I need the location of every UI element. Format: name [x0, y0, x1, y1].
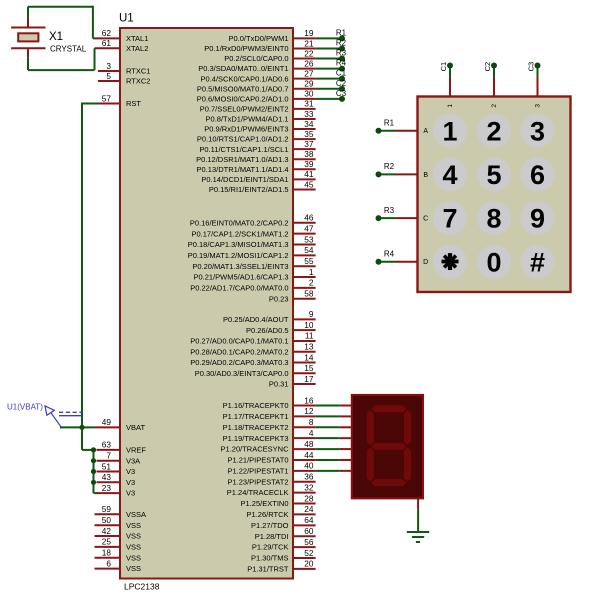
svg-text:43: 43 — [102, 472, 112, 482]
pin 54 P0.19/MAT1.2/MOSI1/CAP1.2 — [188, 245, 316, 260]
pin 60 P1.28/TDI — [255, 526, 316, 541]
svg-text:P0.28/AD0.1/CAP0.2/MAT0.2: P0.28/AD0.1/CAP0.2/MAT0.2 — [190, 347, 288, 356]
svg-text:C1: C1 — [439, 62, 448, 72]
pin 8 P1.18/TRACEPKT2 — [223, 417, 316, 432]
svg-text:23: 23 — [102, 483, 112, 493]
wire pin to node R4 — [316, 68, 342, 70]
svg-text:P1.17/TRACEPKT1: P1.17/TRACEPKT1 — [223, 412, 289, 421]
svg-text:P0.16/EINT0/MAT0.2/CAP0.2: P0.16/EINT0/MAT0.2/CAP0.2 — [190, 218, 289, 227]
wire probe stub to VBAT (pin 49) — [60, 426, 95, 428]
svg-text:26: 26 — [304, 58, 314, 68]
svg-text:28: 28 — [304, 493, 314, 503]
svg-text:LPC2138: LPC2138 — [124, 582, 160, 592]
svg-text:14: 14 — [304, 352, 314, 362]
svg-text:2: 2 — [486, 116, 501, 146]
node R2 (chip side terminal) — [336, 38, 347, 51]
svg-text:50: 50 — [102, 515, 112, 525]
svg-text:22: 22 — [304, 48, 314, 58]
keypad button # — [521, 245, 555, 279]
svg-text:55: 55 — [304, 256, 314, 266]
pin 32 P1.24/TRACECLK — [227, 482, 316, 497]
svg-text:39: 39 — [304, 159, 314, 169]
svg-text:37: 37 — [304, 139, 314, 149]
keypad button 1 — [433, 114, 467, 148]
svg-text:P1.25/EXTIN0: P1.25/EXTIN0 — [241, 499, 289, 508]
pin 64 P1.27/TDO — [251, 515, 316, 530]
wire chip to display segment e — [316, 448, 352, 450]
svg-text:19: 19 — [304, 28, 314, 38]
keypad button 9 — [521, 201, 555, 235]
pin 41 P0.14/DCD1/EINT1/SDA1 — [201, 169, 315, 184]
svg-text:VSS: VSS — [126, 532, 141, 541]
svg-text:P1.19/TRACEPKT3: P1.19/TRACEPKT3 — [223, 434, 289, 443]
svg-text:CRYSTAL: CRYSTAL — [50, 45, 87, 54]
pin 11 P0.27/AD0.0/CAP0.1/MAT0.1 — [190, 331, 315, 346]
pin 52 P1.30/TMS — [251, 548, 316, 563]
svg-text:#: # — [530, 247, 545, 277]
svg-text:R1: R1 — [384, 118, 395, 127]
7-segment digit segment e — [367, 447, 374, 481]
7-segment digit segment d — [371, 479, 406, 486]
svg-text:52: 52 — [304, 548, 314, 558]
pin 22 P0.2/SCL0/CAP0.0 — [224, 48, 315, 63]
svg-text:VBAT: VBAT — [126, 423, 145, 432]
pin 49 VBAT — [95, 417, 145, 432]
pin 6 VSS — [95, 558, 142, 573]
node R3 (keypad side terminal) — [376, 206, 395, 221]
svg-text:6: 6 — [530, 160, 545, 190]
7-segment display body — [352, 395, 423, 499]
svg-text:7: 7 — [442, 204, 457, 234]
svg-text:U1(VBAT): U1(VBAT) — [7, 403, 43, 412]
svg-text:62: 62 — [102, 28, 112, 38]
svg-text:54: 54 — [304, 245, 314, 255]
svg-text:P1.16/TRACEPKT0: P1.16/TRACEPKT0 — [223, 401, 289, 410]
pin 7 V3A — [97, 451, 141, 466]
pin 57 RST — [99, 93, 141, 108]
svg-text:P0.7/SSEL0/PWM2/EINT2: P0.7/SSEL0/PWM2/EINT2 — [200, 104, 289, 113]
pin 47 P0.17/CAP1.2/SCK1/MAT1.2 — [192, 223, 316, 238]
svg-text:V3: V3 — [126, 478, 135, 487]
wire pin to node R3 — [316, 58, 342, 60]
keypad button 0 — [477, 245, 511, 279]
svg-text:P0.4/SCK0/CAP0.1/AD0.6: P0.4/SCK0/CAP0.1/AD0.6 — [201, 74, 289, 83]
pin 30 P0.6/MOSI0/CAP0.2/AD1.0 — [197, 89, 316, 104]
svg-text:C3: C3 — [527, 62, 536, 72]
svg-text:P0.2/SCL0/CAP0.0: P0.2/SCL0/CAP0.0 — [224, 54, 288, 63]
svg-text:P0.29/AD0.2/CAP0.3/MAT0.3: P0.29/AD0.2/CAP0.3/MAT0.3 — [190, 358, 288, 367]
pin 16 P1.16/TRACEPKT0 — [223, 395, 316, 410]
wire chip to display segment c — [316, 426, 352, 428]
wire node C1 to keypad column 1 — [449, 66, 451, 97]
pin 28 P1.25/EXTIN0 — [241, 493, 316, 508]
svg-text:P1.20/TRACESYNC: P1.20/TRACESYNC — [221, 445, 290, 454]
pin 48 P1.20/TRACESYNC — [221, 439, 316, 454]
svg-text:P1.24/TRACECLK: P1.24/TRACECLK — [227, 488, 289, 497]
probe U1(VBAT) — [7, 403, 82, 427]
svg-text:P0.21/PWM5/AD1.6/CAP1.3: P0.21/PWM5/AD1.6/CAP1.3 — [193, 273, 288, 282]
pin 50 VSS — [95, 515, 142, 530]
svg-text:P0.18/CAP1.3/MISO1/MAT1.3: P0.18/CAP1.3/MISO1/MAT1.3 — [188, 240, 289, 249]
keypad button 4 — [433, 157, 467, 191]
svg-text:R2: R2 — [384, 162, 395, 171]
display common pin — [417, 498, 419, 510]
7-segment digit segment b — [404, 410, 411, 446]
svg-text:20: 20 — [304, 559, 314, 569]
svg-text:38: 38 — [304, 149, 314, 159]
svg-text:51: 51 — [102, 461, 112, 471]
wire node R4 to keypad row D — [379, 261, 418, 263]
wire node R2 to keypad row B — [379, 173, 418, 175]
wire pin to node R2 — [316, 47, 342, 49]
svg-text:8: 8 — [309, 417, 314, 427]
svg-text:VSS: VSS — [126, 543, 141, 552]
wire chip to display segment d — [316, 437, 352, 439]
wire chip to display segment a — [316, 405, 352, 407]
svg-text:3: 3 — [530, 116, 545, 146]
wire node C2 to keypad column 2 — [493, 66, 495, 97]
pin 27 P0.4/SCK0/CAP0.1/AD0.6 — [201, 68, 316, 83]
node C3 (chip side terminal) — [336, 89, 347, 102]
pin 4 P1.19/TRACEPKT3 — [223, 428, 316, 443]
svg-text:44: 44 — [304, 450, 314, 460]
svg-text:31: 31 — [304, 99, 314, 109]
node C2 (chip side terminal) — [336, 79, 347, 92]
svg-text:3: 3 — [535, 104, 542, 108]
pin 17 P0.31 — [269, 374, 316, 389]
node C2 (keypad side terminal) — [483, 62, 497, 72]
svg-text:9: 9 — [530, 204, 545, 234]
junction at VBAT — [79, 425, 84, 430]
7-segment digit segment f — [367, 410, 374, 446]
svg-text:P1.28/TDI: P1.28/TDI — [255, 532, 289, 541]
wire chip to display segment f — [316, 459, 352, 461]
svg-text:59: 59 — [102, 504, 112, 514]
svg-text:R1: R1 — [336, 28, 347, 37]
svg-text:P1.26/RTCK: P1.26/RTCK — [247, 510, 289, 519]
svg-text:33: 33 — [304, 109, 314, 119]
svg-text:45: 45 — [304, 179, 314, 189]
svg-text:P0.26/AD0.5: P0.26/AD0.5 — [246, 326, 289, 335]
wire pin to node C1 — [316, 78, 342, 80]
svg-text:49: 49 — [102, 417, 112, 427]
svg-text:C1: C1 — [336, 69, 347, 78]
svg-text:V3A: V3A — [126, 456, 140, 465]
wire node R1 to keypad row A — [379, 130, 418, 132]
svg-text:V3: V3 — [126, 467, 135, 476]
svg-text:P0.30/AD0.3/EINT3/CAP0.0: P0.30/AD0.3/EINT3/CAP0.0 — [195, 369, 289, 378]
svg-text:21: 21 — [304, 38, 314, 48]
svg-text:61: 61 — [102, 38, 112, 48]
svg-text:36: 36 — [304, 472, 314, 482]
svg-text:RTXC2: RTXC2 — [126, 77, 150, 86]
svg-text:C2: C2 — [483, 62, 492, 72]
svg-text:P1.21/PIPESTAT0: P1.21/PIPESTAT0 — [228, 456, 289, 465]
svg-text:P0.8/TxD1/PWM4/AD1.1: P0.8/TxD1/PWM4/AD1.1 — [206, 115, 289, 124]
svg-text:V3: V3 — [126, 489, 135, 498]
svg-text:VREF: VREF — [126, 446, 146, 455]
node R2 (keypad side terminal) — [376, 162, 395, 177]
pin 9 P0.25/AD0.4/AOUT — [223, 309, 316, 324]
pin 5 RTXC2 — [98, 71, 150, 86]
svg-text:P1.27/TDO: P1.27/TDO — [251, 521, 289, 530]
pin 34 P0.9/RxD1/PWM6/EINT3 — [204, 119, 315, 134]
svg-text:3: 3 — [106, 61, 111, 71]
svg-text:P0.23: P0.23 — [269, 294, 289, 303]
pin 43 V3 — [97, 472, 136, 487]
keypad button 7 — [433, 201, 467, 235]
microcontroller U1 LPC2138 body — [120, 28, 293, 579]
junction at V3A — [91, 458, 96, 463]
svg-text:5: 5 — [106, 71, 111, 81]
pin 53 P0.18/CAP1.3/MISO1/MAT1.3 — [188, 234, 316, 249]
pin 13 P0.28/AD0.1/CAP0.2/MAT0.2 — [190, 342, 315, 357]
wire pin to node C2 — [316, 88, 342, 90]
svg-text:VSSA: VSSA — [126, 510, 146, 519]
pin 42 VSS — [95, 526, 142, 541]
keypad button 8 — [477, 201, 511, 235]
wire pin to node R1 — [316, 37, 342, 39]
keypad button 5 — [477, 157, 511, 191]
svg-text:C2: C2 — [336, 79, 347, 88]
svg-text:27: 27 — [304, 68, 314, 78]
crystal X1 — [11, 17, 45, 57]
svg-text:P1.23/PIPESTAT2: P1.23/PIPESTAT2 — [228, 477, 289, 486]
pin 12 P1.17/TRACEPKT1 — [223, 406, 316, 421]
pin 20 P1.31/TRST — [247, 559, 315, 574]
svg-text:24: 24 — [304, 504, 314, 514]
junction at VREF — [91, 447, 96, 452]
svg-text:P0.0/TxD0/PWM1: P0.0/TxD0/PWM1 — [228, 34, 288, 43]
svg-text:D: D — [423, 259, 428, 266]
svg-text:P0.19/MAT1.2/MOSI1/CAP1.2: P0.19/MAT1.2/MOSI1/CAP1.2 — [188, 251, 289, 260]
pin 62 XTAL1 — [95, 28, 149, 43]
svg-text:1: 1 — [442, 116, 457, 146]
svg-text:P0.25/AD0.4/AOUT: P0.25/AD0.4/AOUT — [223, 315, 289, 324]
svg-text:P0.22/AD1.7/CAP0.0/MAT0.0: P0.22/AD1.7/CAP0.0/MAT0.0 — [190, 284, 288, 293]
svg-text:40: 40 — [304, 461, 314, 471]
svg-text:48: 48 — [304, 439, 314, 449]
pin 38 P0.12/DSR1/MAT1.0/AD1.3 — [196, 149, 316, 164]
node R1 (keypad side terminal) — [376, 118, 395, 133]
svg-text:RST: RST — [126, 99, 141, 108]
svg-text:P0.6/MOSI0/CAP0.2/AD1.0: P0.6/MOSI0/CAP0.2/AD1.0 — [197, 94, 289, 103]
wire crystal top to XTAL1 (pin 62) — [28, 6, 95, 39]
node C1 (keypad side terminal) — [439, 62, 453, 72]
svg-text:P0.15/RI1/EINT2/AD1.5: P0.15/RI1/EINT2/AD1.5 — [209, 185, 289, 194]
pin 46 P0.16/EINT0/MAT0.2/CAP0.2 — [190, 213, 316, 228]
svg-text:P1.18/TRACEPKT2: P1.18/TRACEPKT2 — [223, 423, 289, 432]
wire node R3 to keypad row C — [379, 217, 418, 219]
svg-text:R4: R4 — [384, 250, 395, 259]
node R4 (chip side terminal) — [336, 59, 347, 72]
svg-text:R3: R3 — [384, 206, 395, 215]
svg-text:P0.14/DCD1/EINT1/SDA1: P0.14/DCD1/EINT1/SDA1 — [201, 175, 288, 184]
svg-text:P0.20/MAT1.3/SSEL1/EINT3: P0.20/MAT1.3/SSEL1/EINT3 — [192, 262, 288, 271]
svg-text:XTAL1: XTAL1 — [126, 34, 148, 43]
svg-text:17: 17 — [304, 374, 314, 384]
svg-text:P0.10/RTS1/CAP1.0/AD1.2: P0.10/RTS1/CAP1.0/AD1.2 — [197, 135, 289, 144]
pin 14 P0.29/AD0.2/CAP0.3/MAT0.3 — [190, 352, 315, 367]
ground — [407, 532, 429, 542]
pin 10 P0.26/AD0.5 — [246, 320, 316, 335]
node R3 (chip side terminal) — [336, 49, 347, 62]
svg-text:R3: R3 — [336, 49, 347, 58]
svg-text:2: 2 — [491, 104, 498, 108]
svg-text:32: 32 — [304, 482, 314, 492]
pin 40 P1.22/PIPESTAT1 — [228, 461, 316, 476]
svg-text:0: 0 — [486, 247, 501, 277]
7-segment digit segment c — [404, 447, 411, 481]
node R1 (chip side terminal) — [336, 28, 347, 41]
svg-text:A: A — [423, 128, 428, 135]
svg-text:60: 60 — [304, 526, 314, 536]
svg-text:34: 34 — [304, 119, 314, 129]
svg-text:P0.9/RxD1/PWM6/EINT3: P0.9/RxD1/PWM6/EINT3 — [204, 125, 288, 134]
junction at V3 pin 43 — [91, 480, 96, 485]
svg-text:18: 18 — [102, 548, 112, 558]
svg-text:9: 9 — [309, 309, 314, 319]
pin 21 P0.1/RxD0/PWM3/EINT0 — [204, 38, 315, 53]
svg-text:P1.31/TRST: P1.31/TRST — [247, 564, 289, 573]
svg-text:25: 25 — [102, 537, 112, 547]
pin 33 P0.8/TxD1/PWM4/AD1.1 — [206, 109, 316, 124]
svg-text:P0.11/CTS1/CAP1.1/SCL1: P0.11/CTS1/CAP1.1/SCL1 — [199, 145, 288, 154]
pin 2 P0.22/AD1.7/CAP0.0/MAT0.0 — [190, 278, 315, 293]
pin 31 P0.7/SSEL0/PWM2/EINT2 — [200, 99, 316, 114]
svg-text:R2: R2 — [336, 38, 347, 47]
svg-text:R4: R4 — [336, 59, 347, 68]
svg-text:C3: C3 — [336, 89, 347, 98]
svg-text:16: 16 — [304, 395, 314, 405]
svg-text:5: 5 — [486, 160, 501, 190]
node C3 (keypad side terminal) — [527, 62, 541, 72]
svg-text:1: 1 — [447, 104, 454, 108]
pin 23 V3 — [97, 483, 136, 498]
pin 63 VREF — [97, 440, 147, 455]
svg-text:P0.17/CAP1.2/SCK1/MAT1.2: P0.17/CAP1.2/SCK1/MAT1.2 — [192, 229, 289, 238]
svg-text:P1.30/TMS: P1.30/TMS — [251, 554, 289, 563]
svg-text:VSS: VSS — [126, 553, 141, 562]
pin 44 P1.21/PIPESTAT0 — [228, 450, 316, 465]
wire RST (pin 57) down the left side — [82, 103, 99, 428]
wire VBAT junction down to VREF row — [82, 427, 94, 450]
svg-text:X1: X1 — [49, 31, 63, 43]
svg-text:58: 58 — [304, 289, 314, 299]
pin 26 P0.3/SDA0/MAT0..0/EINT1 — [198, 58, 315, 73]
svg-text:47: 47 — [304, 223, 314, 233]
pin 56 P1.29/TCK — [252, 537, 316, 552]
svg-text:57: 57 — [102, 93, 112, 103]
pin 3 RTXC1 — [98, 61, 150, 76]
svg-text:4: 4 — [309, 428, 314, 438]
svg-text:P0.27/AD0.0/CAP0.1/MAT0.1: P0.27/AD0.0/CAP0.1/MAT0.1 — [190, 337, 288, 346]
pin 35 P0.10/RTS1/CAP1.0/AD1.2 — [197, 129, 316, 144]
svg-text:U1: U1 — [119, 13, 134, 25]
keypad button 6 — [521, 157, 555, 191]
keypad button * — [433, 245, 467, 279]
svg-text:41: 41 — [304, 169, 314, 179]
pin 15 P0.30/AD0.3/EINT3/CAP0.0 — [195, 363, 316, 378]
7-segment digit segment g — [371, 443, 406, 450]
wire chip to display segment g — [316, 470, 352, 472]
svg-text:C: C — [423, 216, 428, 223]
wire node C3 to keypad column 3 — [537, 66, 539, 97]
svg-text:42: 42 — [102, 526, 112, 536]
pin 45 P0.15/RI1/EINT2/AD1.5 — [209, 179, 316, 194]
keypad body — [418, 97, 571, 293]
svg-text:P0.13/DTR1/MAT1.1/AD1.4: P0.13/DTR1/MAT1.1/AD1.4 — [197, 165, 289, 174]
svg-text:XTAL2: XTAL2 — [126, 44, 148, 53]
wire chip to display segment b — [316, 415, 352, 417]
svg-text:VSS: VSS — [126, 564, 141, 573]
pin 58 P0.23 — [269, 289, 316, 304]
svg-text:11: 11 — [305, 331, 314, 341]
pin 51 V3 — [97, 461, 136, 476]
pin 1 P0.21/PWM5/AD1.6/CAP1.3 — [193, 267, 315, 282]
svg-text:P1.22/PIPESTAT1: P1.22/PIPESTAT1 — [228, 466, 289, 475]
svg-text:63: 63 — [102, 440, 112, 450]
svg-text:30: 30 — [304, 89, 314, 99]
svg-text:29: 29 — [304, 79, 314, 89]
svg-text:P0.5/MISO0/MAT0.1/AD0.7: P0.5/MISO0/MAT0.1/AD0.7 — [197, 84, 289, 93]
svg-text:P0.3/SDA0/MAT0..0/EINT1: P0.3/SDA0/MAT0..0/EINT1 — [198, 64, 288, 73]
pin 18 VSS — [95, 548, 142, 563]
pin 25 VSS — [95, 537, 142, 552]
svg-text:4: 4 — [442, 160, 457, 190]
pin 24 P1.26/RTCK — [247, 504, 316, 519]
7-segment digit segment a — [371, 405, 406, 412]
pin 59 VSSA — [95, 504, 147, 519]
wire down supply rail V3 pins — [93, 450, 95, 493]
keypad button 2 — [477, 114, 511, 148]
pin 19 P0.0/TxD0/PWM1 — [228, 28, 315, 43]
svg-text:RTXC1: RTXC1 — [126, 67, 150, 76]
svg-text:P1.29/TCK: P1.29/TCK — [252, 543, 289, 552]
svg-text:10: 10 — [304, 320, 314, 330]
svg-text:13: 13 — [304, 342, 314, 352]
pin 36 P1.23/PIPESTAT2 — [228, 472, 316, 487]
pin 29 P0.5/MISO0/MAT0.1/AD0.7 — [197, 79, 316, 94]
node R4 (keypad side terminal) — [376, 250, 395, 265]
wire pin to node C3 — [316, 98, 342, 100]
node C1 (chip side terminal) — [336, 69, 347, 82]
wire display common to ground — [417, 510, 419, 532]
junction at V3 pin 51 — [91, 469, 96, 474]
svg-text:53: 53 — [304, 234, 314, 244]
svg-text:12: 12 — [304, 406, 314, 416]
svg-text:VSS: VSS — [126, 521, 141, 530]
pin 55 P0.20/MAT1.3/SSEL1/EINT3 — [192, 256, 315, 271]
svg-text:35: 35 — [304, 129, 314, 139]
keypad button 3 — [521, 114, 555, 148]
svg-text:2: 2 — [309, 278, 314, 288]
svg-text:8: 8 — [486, 204, 501, 234]
svg-text:P0.1/RxD0/PWM3/EINT0: P0.1/RxD0/PWM3/EINT0 — [204, 44, 288, 53]
pin 61 XTAL2 — [95, 38, 149, 53]
svg-text:46: 46 — [304, 213, 314, 223]
svg-text:15: 15 — [304, 363, 314, 373]
svg-text:P0.12/DSR1/MAT1.0/AD1.3: P0.12/DSR1/MAT1.0/AD1.3 — [196, 155, 288, 164]
svg-text:64: 64 — [304, 515, 314, 525]
svg-text:56: 56 — [304, 537, 314, 547]
svg-text:7: 7 — [106, 451, 111, 461]
svg-text:6: 6 — [106, 558, 111, 568]
svg-text:P0.31: P0.31 — [269, 380, 289, 389]
svg-text:B: B — [423, 172, 428, 179]
wire crystal bottom to XTAL2 (pin 61) — [28, 48, 95, 70]
pin 39 P0.13/DTR1/MAT1.1/AD1.4 — [197, 159, 316, 174]
